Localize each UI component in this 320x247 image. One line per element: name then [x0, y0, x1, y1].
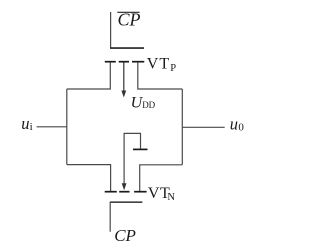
svg-text:i: i — [30, 121, 33, 133]
label u_i input — [21, 114, 32, 133]
label UDD — [131, 94, 156, 111]
svg-text:N: N — [167, 192, 175, 203]
wire left rail — [66, 89, 68, 165]
svg-text:u: u — [21, 114, 29, 133]
transistor VTN channel dash 1 — [105, 191, 117, 193]
wire CP-bar to VTP gate — [111, 12, 144, 48]
node CP-bar label — [117, 10, 140, 30]
transistor VTP channel dash 3 — [132, 61, 144, 63]
ground bar — [133, 148, 148, 150]
wire VTN drain lead (right) — [140, 165, 183, 191]
wire VTN substrate to ground — [124, 133, 140, 185]
wire right rail — [181, 89, 183, 165]
wire VTP source lead (left) — [67, 62, 111, 89]
transistor VTP substrate arrow to UDD — [121, 62, 126, 97]
svg-text:DD: DD — [142, 100, 155, 110]
transistor VTN substrate arrowhead — [122, 183, 127, 190]
transistor VTP channel dash 1 — [105, 61, 116, 63]
wire VTN source lead (left) — [67, 165, 111, 191]
label VTN — [148, 185, 176, 203]
wire VTN gate to CP — [110, 202, 142, 232]
label u_0 output — [230, 115, 245, 134]
label VTP — [147, 56, 176, 75]
transistor VTN channel dash 3 — [134, 191, 147, 193]
svg-text:CP: CP — [114, 226, 136, 242]
wire input u_i — [37, 126, 67, 128]
wire VTP drain lead (right) — [138, 62, 183, 89]
wire output u_0 — [182, 126, 224, 128]
transistor VTN channel dash 2 — [119, 191, 129, 193]
svg-text:VT: VT — [147, 56, 170, 73]
svg-text:0: 0 — [238, 122, 244, 134]
svg-text:u: u — [230, 115, 238, 134]
transistor VTP gate bar — [110, 47, 144, 49]
transistor VTN gate bar — [110, 201, 142, 203]
transistor VTP channel dash 2 — [119, 61, 129, 63]
svg-text:P: P — [170, 63, 176, 74]
